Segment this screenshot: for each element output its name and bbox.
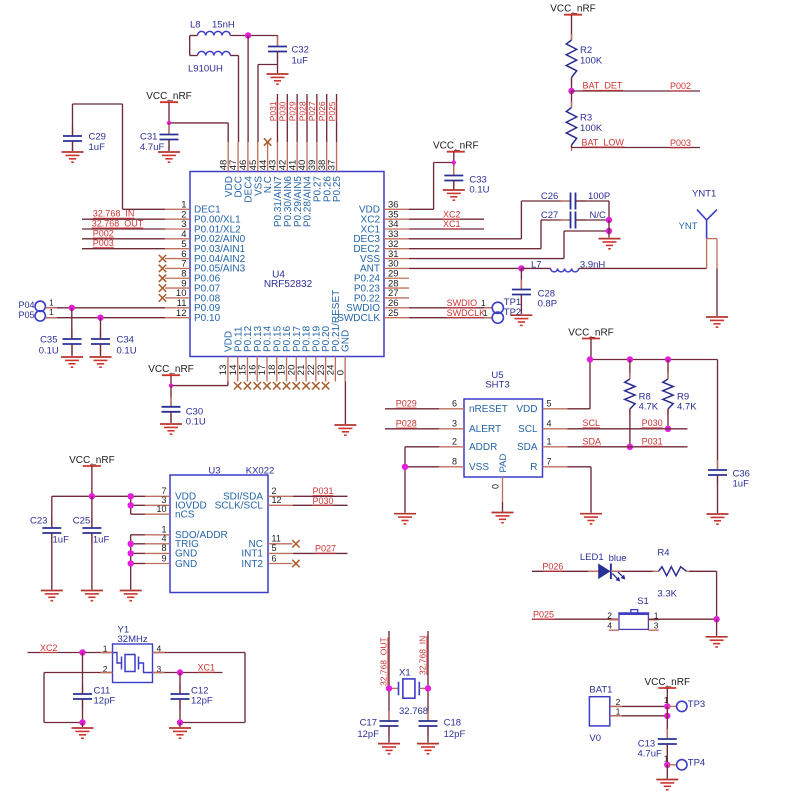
ic U5 SHT3 [464,370,543,477]
svg-text:XC2: XC2 [40,643,58,653]
node BAT_LOW [582,137,625,147]
svg-text:3: 3 [654,621,659,631]
svg-text:4: 4 [161,534,166,544]
svg-text:TP4: TP4 [688,757,705,768]
junction L7 node [518,265,524,271]
wire L8 to DEC4 node [230,35,277,37]
inductor L910UH [188,51,230,74]
no-connect X pins 6-10 [159,255,166,302]
node P002 (left) [93,228,114,238]
junction DEC4 node [245,32,251,38]
svg-text:SCL: SCL [583,418,601,428]
wire L8 left link [190,36,198,56]
wire TP4 node to ground [666,765,668,779]
wire R9 to SCL [667,409,669,429]
svg-text:C18: C18 [444,718,461,729]
power VCC_nRF (U3) [69,455,115,466]
svg-text:SCL: SCL [518,424,538,435]
svg-text:2: 2 [607,611,612,621]
svg-text:P04: P04 [18,300,34,310]
junction X1 left [386,685,392,691]
junction C31 tap [167,121,171,125]
Y1 pin stub overdraw [101,653,165,673]
wire R4 to S1 node [689,571,716,619]
wire C11 gnd stub [82,723,84,728]
wire P028 [385,428,439,430]
node P025 [533,609,554,619]
node BAT_DET [583,81,624,91]
svg-text:1: 1 [664,695,669,705]
svg-text:1uF: 1uF [733,479,750,490]
wire L7 to antenna [579,267,707,269]
Y1 pin numbers [103,644,162,674]
svg-text:BAT_DET: BAT_DET [583,81,623,91]
svg-text:15nH: 15nH [212,20,235,31]
junction VSS node [606,228,612,234]
junction S1 node [713,616,719,622]
svg-text:SDA: SDA [583,437,602,447]
wire antenna feed [707,239,717,316]
testpoint TP4 [664,754,705,771]
wire C12 gnd stub [179,723,181,728]
ground C32 [267,74,289,84]
wire C27 right [576,219,610,221]
junction R9-SCL [665,426,671,432]
svg-text:0: 0 [491,484,501,489]
svg-text:NRF52832: NRF52832 [264,279,313,290]
svg-text:GND: GND [341,330,352,352]
wire DEC4 pin46 [247,36,249,143]
svg-text:12pF: 12pF [191,696,213,707]
ground U5 PAD [492,513,514,523]
ground C30 [160,424,182,434]
wire P029 [385,408,439,410]
node XC2 (Y1) [40,643,58,653]
svg-text:R: R [530,462,537,473]
wire Y1 pin3 XC1 [153,672,223,674]
wire S1 node to ground [716,619,718,636]
node XC1 (Y1) [198,663,216,673]
svg-text:P026: P026 [317,101,327,121]
capacitor C25 [73,515,110,545]
svg-text:4.7K: 4.7K [639,402,659,413]
svg-text:L8: L8 [190,20,201,31]
svg-text:ADDR: ADDR [469,442,497,453]
svg-text:X1: X1 [399,668,411,679]
svg-text:P0.25: P0.25 [332,176,343,203]
junction rail-VDD [587,356,593,362]
svg-text:C25: C25 [73,515,90,526]
svg-text:nRESET: nRESET [469,404,508,415]
wire VCC to pin48 [169,103,228,142]
svg-text:TP2: TP2 [504,307,521,318]
power VCC_nRF (R2) [550,4,596,15]
svg-text:VDD: VDD [516,404,537,415]
svg-text:XC2: XC2 [443,209,461,219]
svg-text:P031: P031 [313,486,334,496]
wire C26 right [576,201,610,220]
svg-text:LED1: LED1 [580,552,604,563]
svg-text:KX022: KX022 [246,466,275,477]
inductor L7 [531,260,605,272]
svg-text:TP3: TP3 [688,699,705,710]
junction C33 tap [452,160,456,164]
ground U4 pin0 [334,425,356,435]
svg-text:1uF: 1uF [93,534,110,545]
svg-text:P031: P031 [642,437,663,447]
svg-text:P0.10: P0.10 [194,313,221,324]
wire ADDR/VSS [405,447,439,513]
wire U3 gnd bus [131,535,145,590]
svg-text:SWDCLK: SWDCLK [337,313,380,324]
svg-text:1: 1 [664,754,669,764]
wire C17 gnd lead [388,726,390,743]
wire SWDIO pin26 [409,307,492,309]
LED LED1 blue [580,552,627,582]
wire U5 VDD to VCC [568,360,591,409]
svg-text:1uF: 1uF [292,56,309,67]
svg-text:12pF: 12pF [357,729,379,740]
wire P031..P025 verticals [277,94,336,142]
wire P05 to pin12 [45,317,165,319]
wire C26 node to ground [608,220,610,238]
svg-text:5: 5 [272,543,277,553]
wire BAT node to C13 [666,706,668,739]
wire U3 VCC rail [52,466,145,514]
wire C28 to ground [520,295,522,315]
wire R3 top [571,91,573,108]
junction R8-SDA [627,444,633,450]
svg-text:32.768_IN: 32.768_IN [418,636,428,675]
svg-text:P003: P003 [670,138,691,148]
wire P002 pin4 [82,238,165,240]
junction rail-R9 [665,356,671,362]
crystal X1 32.768 [389,668,428,718]
svg-text:SWDCLK: SWDCLK [447,308,486,318]
svg-text:P025: P025 [327,101,337,121]
ic U4 NRF52832 body [190,172,384,357]
crystal Y1 32MHz [101,625,165,683]
svg-text:SWDIO: SWDIO [447,298,478,308]
svg-text:P027: P027 [307,101,317,121]
svg-text:32.768_OUT: 32.768_OUT [92,218,144,228]
node 32.768_IN (X1) [418,636,428,675]
svg-text:YNT: YNT [679,221,698,232]
wire C12 leads [179,673,181,723]
wire 32.768_IN pin2 [82,218,165,220]
capacitor C18 [419,711,466,740]
ground S1 [706,637,728,647]
svg-text:P025: P025 [533,609,554,619]
ground C34 [90,357,112,367]
ground U5 VSS [394,514,416,524]
wire C31 to ground [168,140,170,152]
node P003 (right) [670,138,691,148]
svg-text:P028: P028 [297,101,307,121]
wire U3 INT1 P027 [293,552,348,554]
ground U3 bus [120,591,142,601]
svg-text:C35: C35 [40,334,57,345]
svg-text:C26: C26 [541,191,558,202]
ground C28 [510,315,532,325]
svg-text:10: 10 [156,504,166,514]
capacitor C26 [541,191,610,209]
wire P04 to pin11 [45,307,165,309]
wire R8 top [629,360,631,380]
wire LED to R4 [611,570,656,572]
svg-text:P003: P003 [93,238,114,248]
svg-text:BAT_LOW: BAT_LOW [582,137,625,147]
wire GND pin0 [344,382,346,425]
svg-text:SCLK/SCL: SCLK/SCL [215,501,264,512]
svg-text:P002: P002 [93,228,114,238]
capacitor C32 [268,36,309,67]
svg-text:C27: C27 [541,210,558,221]
junction C11 gnd [79,719,85,725]
ground C25 [81,591,103,601]
switch S1 [607,596,659,631]
junction C34 tap [97,314,103,320]
svg-text:S1: S1 [637,596,649,607]
node SWDCLK [447,308,486,318]
ground C11 [72,728,94,738]
ground C26/C27 [599,239,621,249]
U3 pin stubs and numbers [145,486,293,563]
junction C27 node [606,217,612,223]
wire U5 R to ground [568,467,592,513]
power VCC_nRF (BAT1) [645,677,691,688]
resistor R4 [653,548,693,600]
node P030 (U5) [642,418,663,428]
wire SDA [568,446,688,448]
wire 32.768_OUT vertical [388,631,390,721]
node XC1 (U4) [443,219,461,229]
svg-text:nCS: nCS [175,510,195,521]
junction U3 GND9 [128,560,134,566]
ground C35 [61,357,83,367]
wire VSS pin31 path [409,231,609,259]
junction U3 VDD bus [128,493,134,499]
wire U3 P031 [293,495,348,497]
svg-text:SDA: SDA [517,442,538,453]
node P028 (U5) [396,419,417,429]
ground C29 [62,152,84,162]
wire SCL [568,428,688,430]
no-connect X pins 14-23 [234,382,329,389]
wire BAT1 pin2 [610,705,668,707]
wire U5 PAD to ground [502,502,504,512]
capacitor C12 [171,684,213,709]
wire VCC to BAT node [666,688,668,706]
wire P003 pin5 [82,248,165,250]
wire C34 leads [100,318,102,356]
svg-text:P027: P027 [315,544,336,554]
svg-text:R2: R2 [580,45,592,56]
node P027 (U3) [315,544,336,554]
svg-text:V0: V0 [589,733,601,744]
wire C23 leads [51,496,53,589]
capacitor C35 [39,329,82,357]
wire SWDCLK pin25 [409,317,492,319]
wire R9 top [667,360,669,380]
svg-text:0.8P: 0.8P [538,299,558,310]
svg-text:P031: P031 [268,101,278,121]
svg-text:4: 4 [607,621,612,631]
wire 32.768_IN vertical [427,631,429,721]
svg-text:VSS: VSS [469,462,489,473]
svg-text:C32: C32 [292,45,309,56]
wire C36 top [717,360,719,471]
svg-text:8: 8 [161,543,166,553]
svg-text:SHT3: SHT3 [485,380,509,391]
capacitor C13 [638,729,677,759]
no-connect X U3 NC [292,540,299,547]
svg-text:L7: L7 [531,260,542,271]
wire C33 to ground [453,181,455,190]
wire VCC rail [590,339,718,360]
inductor L8 [190,20,235,36]
svg-text:0.1U: 0.1U [469,185,489,196]
capacitor C31 [140,123,179,153]
wire BAT_DET [572,90,701,92]
wire XC2 pin35 [409,218,484,220]
svg-text:1: 1 [481,298,486,308]
junction C12 gnd [177,719,183,725]
node P031 (U5) [642,437,663,447]
capacitor C23 [30,515,69,545]
capacitor C34 [91,329,137,357]
node P030 (U3) [313,496,334,506]
wire VSS pin45 jog [258,65,278,143]
svg-text:0.1U: 0.1U [186,417,206,428]
junction C11 tap [79,649,85,655]
wire DEC3 to C26 [409,201,571,239]
capacitor C30 [162,397,206,428]
svg-text:2: 2 [452,437,457,447]
svg-text:11: 11 [272,534,281,544]
wire R8 to SDA [629,409,631,447]
svg-text:P029: P029 [288,101,298,121]
node 32.768_OUT (X1) [379,637,389,686]
svg-text:XC1: XC1 [198,663,216,673]
svg-text:0.1U: 0.1U [117,346,137,357]
svg-text:ALERT: ALERT [469,424,501,435]
capacitor C29 [63,126,106,153]
node P002 (right) [670,81,691,91]
capacitor C17 [357,711,398,740]
U4 pin stubs (all sides) [165,142,409,382]
svg-text:6: 6 [272,553,277,563]
ground antenna [706,317,728,327]
wire C11 leads [82,653,84,723]
junction X1 right [425,685,431,691]
svg-text:1: 1 [49,297,54,307]
BAT1 pin numbers [616,697,621,717]
node P029 (U5) [396,399,417,409]
svg-text:GND: GND [175,559,197,570]
wire ANT pin30 [409,267,521,269]
junction rail-R8 [627,356,633,362]
svg-text:100K: 100K [580,56,603,67]
capacitor C33 [444,166,489,196]
node 32.768_OUT [92,218,144,228]
junction C35 tap [69,305,75,311]
antenna YNT1 [679,189,718,239]
junction BAT pin2 [664,703,670,709]
testpoint TP2 [483,307,521,323]
resistor R9 [663,373,697,415]
svg-text:7: 7 [547,457,552,467]
svg-text:P028: P028 [396,419,417,429]
wire XC2 to Y1 pin1 [28,652,113,654]
svg-text:32.768: 32.768 [399,706,428,717]
svg-text:blue: blue [609,553,627,564]
capacitor C27 [541,210,606,228]
wire S1 to gnd node [648,618,716,620]
no-connect X U3 INT2 [292,560,299,567]
wire C18 gnd lead [427,726,429,743]
power VCC_nRF (U5 rail) [568,327,614,338]
svg-text:P002: P002 [670,81,691,91]
svg-text:12: 12 [272,495,282,505]
svg-text:U3: U3 [208,466,220,477]
node P003 (left) [93,238,114,248]
junction TP4 node [664,762,670,768]
junction U3 TRIG [128,541,134,547]
svg-text:1uF: 1uF [89,142,106,153]
wire P026 to LED [532,570,598,572]
wire C30 lead [170,386,172,407]
svg-text:8: 8 [452,457,457,467]
svg-text:32MHz: 32MHz [118,634,148,645]
svg-text:4: 4 [547,419,552,429]
wire BAT_LOW [572,145,701,148]
svg-text:0.1U: 0.1U [39,346,59,357]
junction U3 GND8 [128,550,134,556]
svg-text:6: 6 [452,399,457,409]
junction C12 tap [177,669,183,675]
svg-text:YNT1: YNT1 [692,189,716,200]
testpoint TP1 [481,297,521,313]
svg-text:P05: P05 [18,310,34,320]
junction U3 IOVDD [128,502,134,508]
wire VCC to pin13 [171,376,228,386]
wire C36 to ground [717,475,719,513]
svg-text:1: 1 [483,308,488,318]
svg-text:3: 3 [452,419,457,429]
svg-text:12pF: 12pF [94,696,116,707]
ground C17 [378,744,400,754]
node SWDIO [447,298,478,308]
U4 pin numbers [176,160,399,375]
wire C30 to ground [170,412,172,423]
svg-text:1: 1 [616,707,621,717]
svg-text:P030: P030 [313,496,334,506]
svg-text:C34: C34 [117,334,134,345]
svg-text:4.7K: 4.7K [677,402,697,413]
wire R2 to BAT_DET [571,78,573,92]
svg-text:P030: P030 [278,101,288,121]
wire XC1 pin34 [409,228,484,230]
ground C31 [158,152,180,162]
svg-text:32.768_OUT: 32.768_OUT [379,637,389,686]
svg-text:C29: C29 [89,132,106,143]
capacitor C28 [512,280,557,310]
wire VCC to R2 [571,15,573,40]
resistor R2 [566,34,603,84]
svg-text:5: 5 [547,399,552,409]
wire C13 to TP4 node [666,744,668,765]
